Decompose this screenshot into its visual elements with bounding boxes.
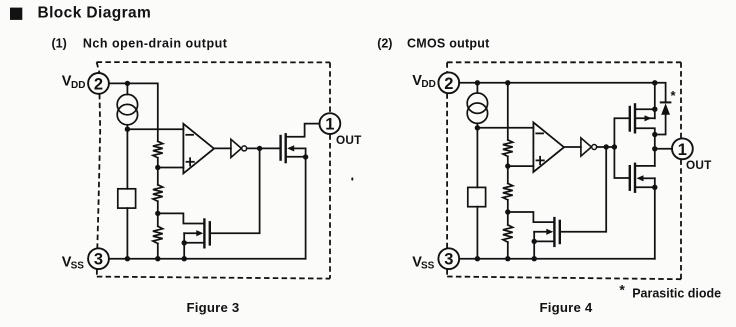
svg-text:(2): (2) <box>377 37 392 51</box>
wire node A to comparator non-inverting input <box>158 167 184 169</box>
wire OUT node <box>654 135 656 166</box>
node B ladder tap <box>155 211 160 216</box>
wire inverter output to Q5 gate <box>560 147 606 232</box>
node rail-Q5 junction fig4 <box>532 256 537 261</box>
wire Q4 source to VSS rail <box>654 178 656 258</box>
wire reference box to VSS rail <box>126 208 128 259</box>
pin 2 VDD <box>88 73 109 94</box>
inverter U4 <box>581 138 597 156</box>
inverter U2 <box>231 139 247 157</box>
transistor Q3 output PMOS <box>630 104 655 132</box>
node rail-ladder junction fig4 <box>505 256 510 261</box>
node reference output <box>475 125 480 130</box>
wire reference to comparator inverting input <box>477 127 533 129</box>
svg-text:2: 2 <box>94 75 103 93</box>
transistor Q5 hysteresis NMOS <box>534 218 560 246</box>
wire R3 to VSS rail <box>157 244 159 259</box>
wire OUT node to OUT pin <box>655 148 672 150</box>
pin 3 VSS fig4 <box>438 248 459 269</box>
node Q5 source-body tie <box>532 239 537 244</box>
svg-text:Parasitic diode: Parasitic diode <box>632 286 721 300</box>
node reference output <box>125 127 130 132</box>
node rail-reference junction fig4 <box>475 256 480 261</box>
parasitic diode D1 <box>655 83 671 135</box>
wire Q5 source to VSS rail <box>533 232 535 259</box>
svg-text:DD: DD <box>421 79 435 90</box>
current source I1 <box>117 94 137 124</box>
svg-text:3: 3 <box>94 251 103 269</box>
svg-text:CMOS output: CMOS output <box>407 37 490 51</box>
resistor R6 <box>503 225 513 242</box>
wire current source top lead <box>476 83 478 93</box>
svg-text:Figure 3: Figure 3 <box>187 300 240 315</box>
node OUT junction <box>652 146 657 151</box>
node Q2 source-body tie <box>182 240 187 245</box>
wire gate branch to Q4 gate <box>614 147 629 178</box>
wire VDD rail top <box>459 82 655 84</box>
svg-text:DD: DD <box>71 80 85 91</box>
transistor Q1 output NMOS <box>281 134 306 162</box>
svg-text:SS: SS <box>71 261 85 272</box>
wire Q4 drain to OUT node <box>635 165 655 167</box>
wire Q3 drain to OUT node <box>635 128 655 134</box>
wire reference box to VSS rail <box>476 207 478 259</box>
wire VSS rail <box>109 258 305 260</box>
heading bullet square <box>10 8 22 20</box>
svg-text:OUT: OUT <box>686 158 712 172</box>
node C ladder tap <box>505 163 510 168</box>
wire inverter to output gates <box>597 146 615 148</box>
svg-text:(1): (1) <box>52 37 67 51</box>
wire VDD pin to ladder <box>109 83 158 141</box>
svg-text:3: 3 <box>444 251 453 269</box>
svg-text:*: * <box>619 282 625 298</box>
wire ladder drop <box>507 83 509 140</box>
resistor R2 <box>153 185 163 202</box>
node VDD output-stage junction <box>652 80 657 85</box>
fig4 dashed enclosure <box>447 62 681 279</box>
svg-text:1: 1 <box>678 141 687 159</box>
wire gate branch to Q3 gate <box>614 118 629 147</box>
pin 1 OUT <box>320 113 341 134</box>
wire R6 to VSS rail <box>507 242 509 259</box>
node Q4 source-body tie <box>652 185 657 190</box>
wire node A to R2 <box>157 168 159 185</box>
svg-text:Block Diagram: Block Diagram <box>38 4 152 21</box>
wire node D to Q5 drain <box>508 212 555 222</box>
pin 2 VDD fig4 <box>438 72 459 93</box>
node rail-Q2 junction <box>182 256 187 261</box>
wire Q2 source to VSS rail <box>183 233 185 259</box>
resistor R3 <box>153 226 163 243</box>
pin 3 VSS <box>88 248 109 269</box>
resistor R5 <box>503 183 513 200</box>
node rail-ladder junction <box>155 256 160 261</box>
svg-text:Figure 4: Figure 4 <box>540 300 593 315</box>
node Q1 source-body tie <box>303 154 308 159</box>
comparator U3 <box>533 122 564 172</box>
wire node C to comparator non-inverting input <box>508 165 534 167</box>
node VDD-ladder junction <box>505 80 510 85</box>
wire current source top lead <box>126 83 128 94</box>
node rail-reference junction <box>125 256 130 261</box>
node VDD-currentsource junction <box>125 81 130 86</box>
current source I2 <box>467 93 487 123</box>
node A ladder tap <box>155 165 160 170</box>
resistor R1 <box>153 141 163 158</box>
wire inverter output to Q2 gate <box>210 148 260 233</box>
svg-text:2: 2 <box>444 75 453 93</box>
wire comparator to inverter <box>564 146 581 148</box>
stray scan speck <box>351 177 353 180</box>
reference element box <box>118 189 136 208</box>
wire current source to reference box <box>476 123 478 187</box>
wire current source to reference box <box>126 125 128 189</box>
svg-text:OUT: OUT <box>336 133 362 147</box>
node Q3 source-body tie <box>652 107 657 112</box>
pin 1 OUT fig4 <box>672 138 693 159</box>
wire R2 to node B <box>157 201 159 226</box>
wire Q1 drain to OUT pin <box>286 124 320 137</box>
node VDD-currentsource junction <box>475 80 480 85</box>
wire reference to comparator inverting input <box>127 128 183 130</box>
svg-text:SS: SS <box>421 261 435 272</box>
wire comparator to inverter <box>214 147 231 149</box>
wire VSS rail fig4 <box>460 258 655 260</box>
node gate branch <box>612 144 617 149</box>
wire Q1 source to VSS rail <box>305 148 307 258</box>
node D ladder tap <box>505 209 510 214</box>
svg-text:1: 1 <box>325 116 334 134</box>
wire inverter to Q1 gate <box>247 147 281 149</box>
wire R1 to node A <box>157 158 159 168</box>
wire node C to R5 <box>507 166 509 183</box>
wire R4 to node C <box>507 156 509 166</box>
wire Q3 source to VDD rail <box>654 83 656 119</box>
svg-text:*: * <box>671 88 677 103</box>
resistor R4 <box>503 140 513 157</box>
comparator U1 <box>183 124 214 174</box>
transistor Q4 output NMOS <box>630 164 655 192</box>
svg-text:Nch open-drain output: Nch open-drain output <box>83 37 228 51</box>
node Q3 drain-diode junction <box>652 132 657 137</box>
reference element box <box>468 187 486 206</box>
wire node B to Q2 drain <box>158 213 205 223</box>
transistor Q2 hysteresis NMOS <box>184 220 210 248</box>
node inverter output <box>257 146 262 151</box>
fig3 dashed enclosure <box>97 62 330 279</box>
node inverter output <box>604 144 609 149</box>
wire R5 to node D <box>507 200 509 225</box>
